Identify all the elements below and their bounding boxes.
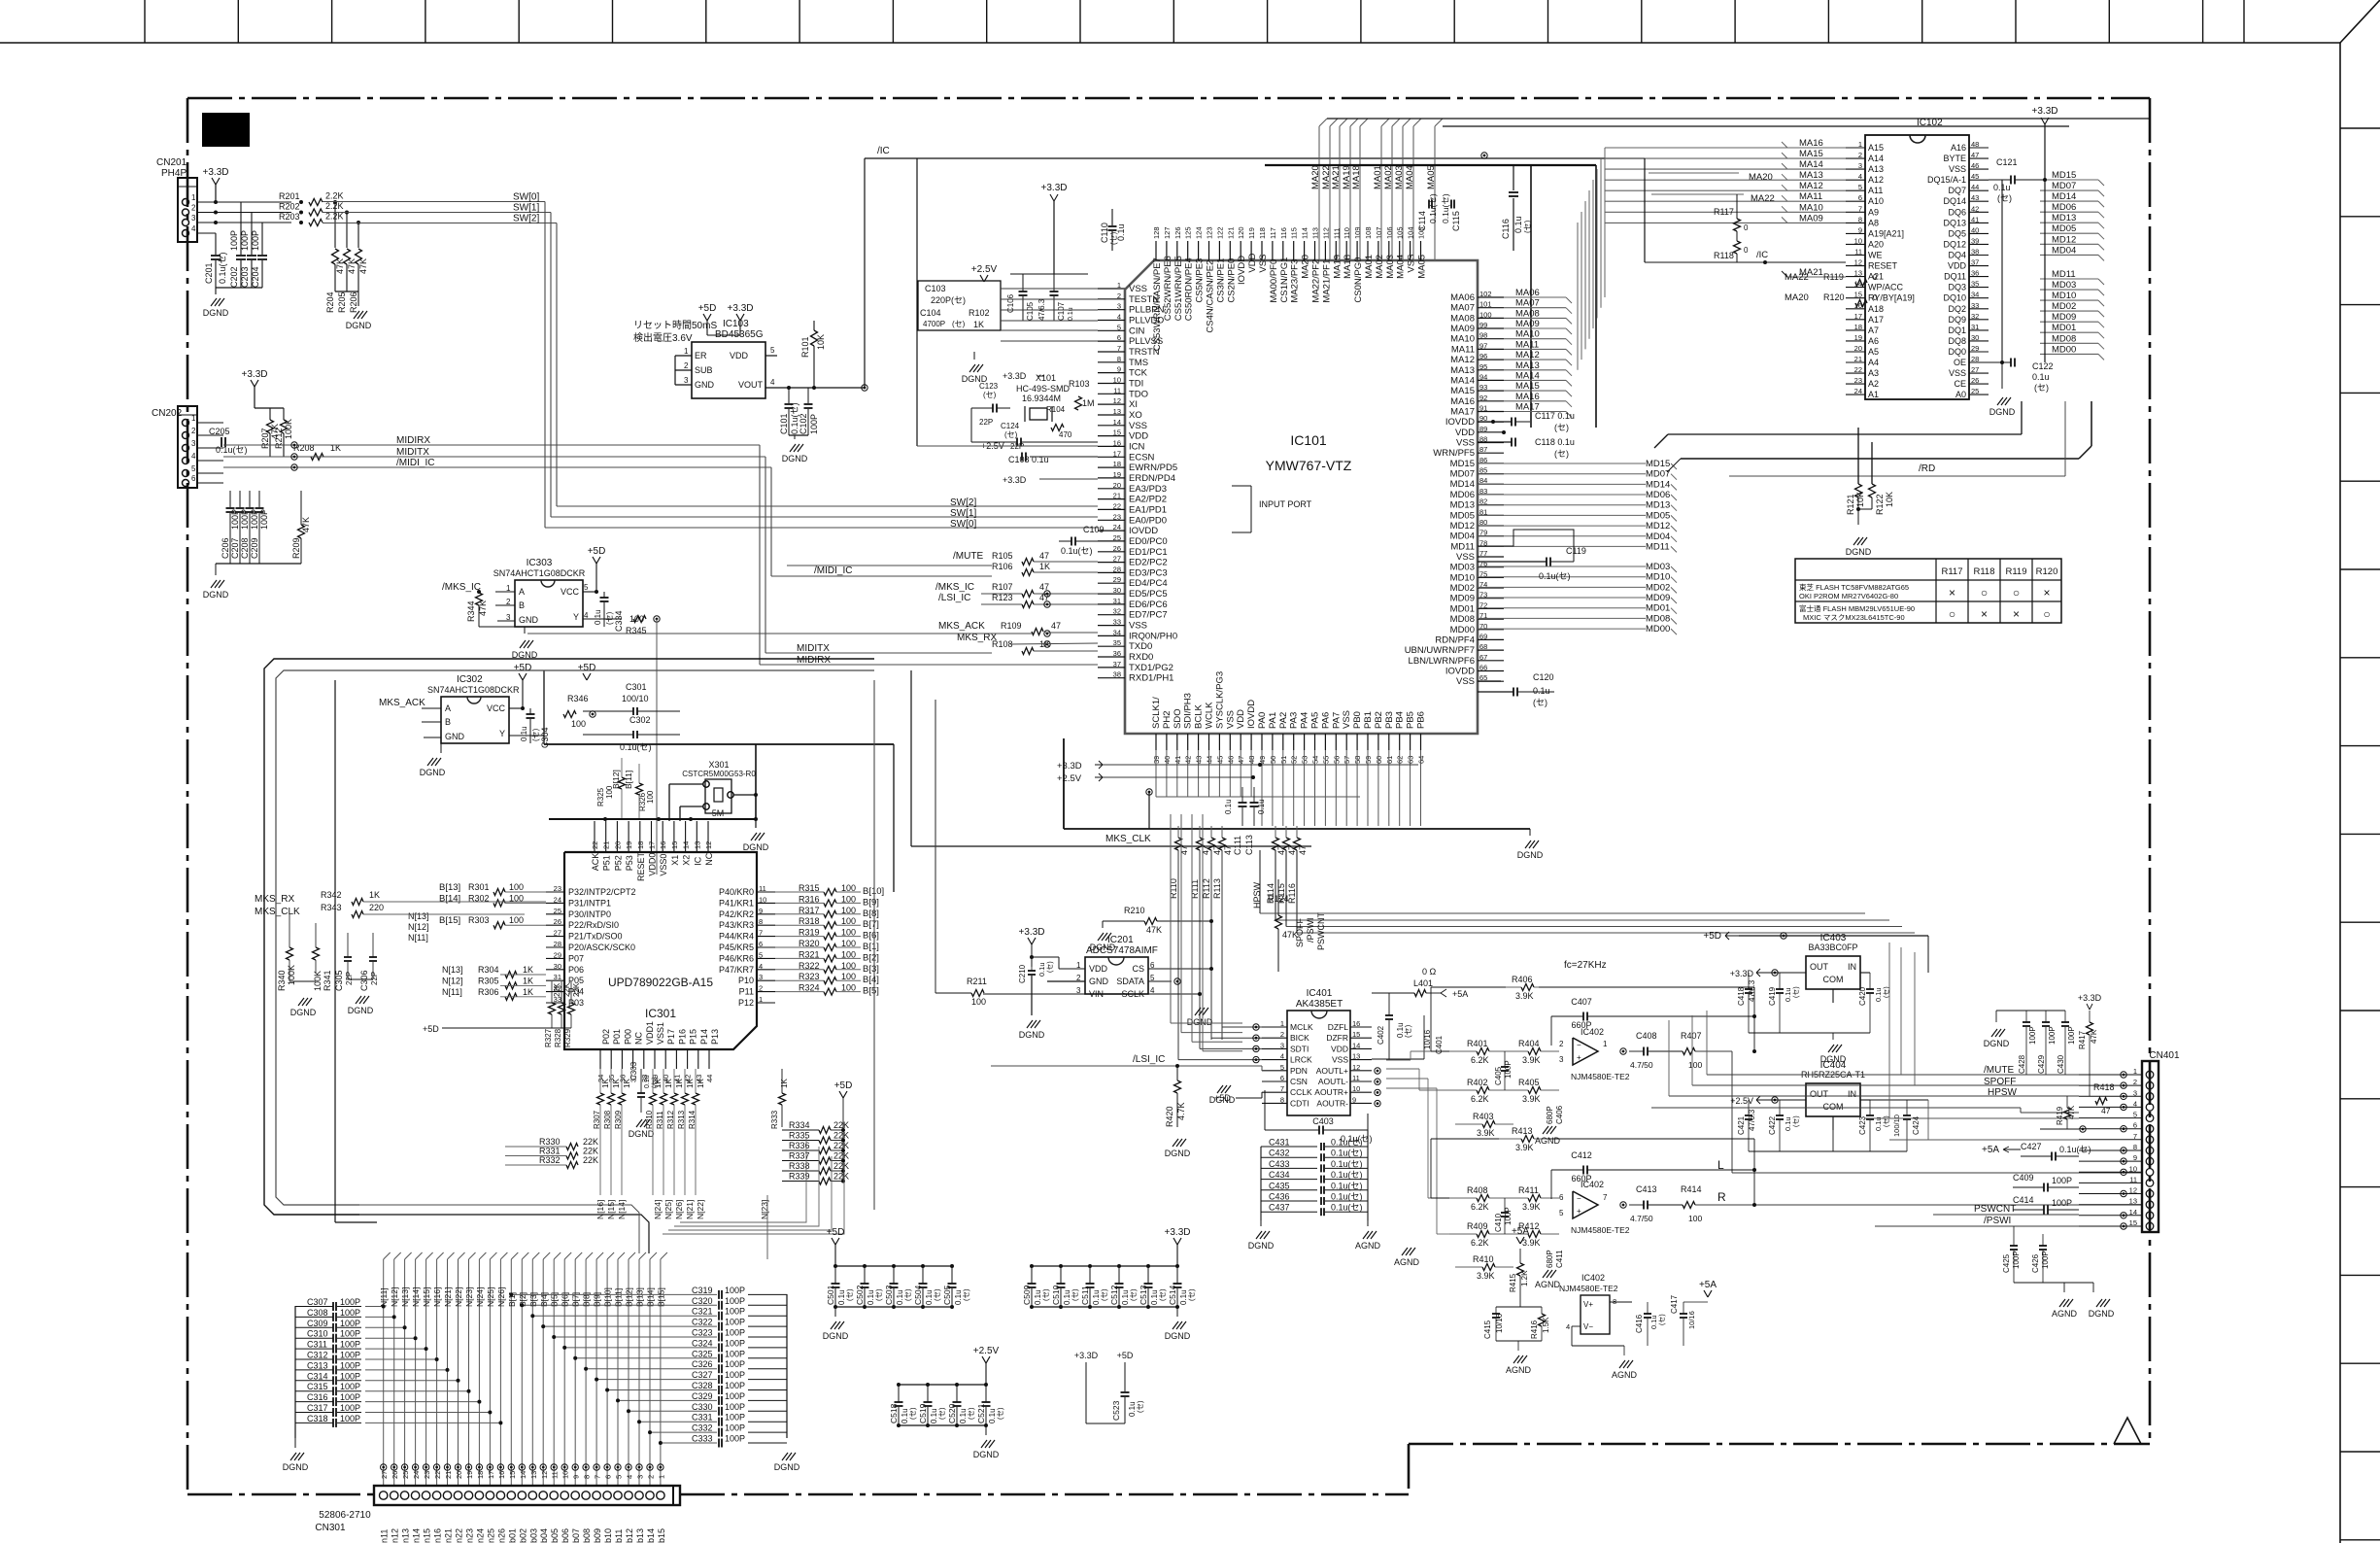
- svg-text:P30/INTP0: P30/INTP0: [568, 909, 611, 919]
- svg-text:A14: A14: [1868, 154, 1884, 163]
- svg-text:100P: 100P: [340, 1329, 360, 1339]
- svg-text:MA12: MA12: [1515, 350, 1540, 360]
- svg-text:C334: C334: [614, 610, 624, 632]
- svg-text:+5A: +5A: [1982, 1145, 1999, 1155]
- svg-text:C521: C521: [976, 1403, 986, 1423]
- svg-text:MD04: MD04: [2052, 245, 2076, 256]
- svg-text:A9: A9: [1868, 207, 1879, 217]
- svg-text:(セ): (セ): [845, 1288, 854, 1301]
- svg-text:CS51WRN/PE5: CS51WRN/PE5: [1173, 256, 1184, 321]
- svg-text:1: 1: [1280, 1019, 1284, 1028]
- svg-text:35: 35: [1113, 638, 1121, 647]
- svg-text:C105: C105: [1026, 301, 1035, 321]
- svg-text:100P: 100P: [725, 1402, 745, 1412]
- svg-text:26: 26: [391, 1471, 399, 1479]
- svg-text:C117 0.1u: C117 0.1u: [1535, 411, 1575, 421]
- svg-text:RESET: RESET: [636, 851, 646, 881]
- svg-text:XO: XO: [1129, 410, 1142, 421]
- svg-text:21: 21: [444, 1471, 453, 1479]
- svg-text:SDO: SDO: [1173, 708, 1183, 729]
- svg-text:6: 6: [604, 1475, 613, 1479]
- svg-text:RXD0: RXD0: [1129, 652, 1153, 663]
- svg-text:N[12]: N[12]: [390, 1287, 399, 1307]
- svg-text:MKS_CLK: MKS_CLK: [255, 907, 300, 917]
- svg-text:CS53WRN/RASN/PE7: CS53WRN/RASN/PE7: [1152, 257, 1163, 351]
- svg-text:N[26]: N[26]: [674, 1200, 684, 1219]
- svg-text:MD10: MD10: [1646, 572, 1670, 583]
- svg-text:B[8]: B[8]: [863, 909, 879, 919]
- svg-text:22: 22: [1113, 501, 1121, 510]
- svg-text:100P: 100P: [340, 1382, 360, 1391]
- svg-text:C319: C319: [692, 1286, 713, 1295]
- svg-text:22K: 22K: [833, 1120, 849, 1130]
- svg-text:/MUTE: /MUTE: [1984, 1065, 2014, 1076]
- svg-text:B[5]: B[5]: [863, 986, 879, 997]
- svg-text:C422: C422: [1768, 1115, 1777, 1135]
- svg-text:DQ2: DQ2: [1948, 304, 1966, 314]
- svg-text:UPD789022GB-A15: UPD789022GB-A15: [608, 976, 713, 989]
- svg-text:/LSI_IC: /LSI_IC: [1133, 1054, 1165, 1065]
- svg-text:B[14]: B[14]: [646, 1287, 656, 1307]
- svg-text:C318: C318: [307, 1414, 328, 1423]
- svg-text:C123: C123: [979, 382, 999, 391]
- svg-text:C409: C409: [2013, 1173, 2034, 1183]
- svg-text:8: 8: [1858, 215, 1862, 223]
- svg-text:DGND: DGND: [823, 1331, 849, 1341]
- svg-text:1K: 1K: [664, 1079, 673, 1088]
- svg-text:VDD0: VDD0: [648, 853, 658, 876]
- svg-text:ERDN/PD4: ERDN/PD4: [1129, 473, 1175, 484]
- svg-text:SCLK: SCLK: [1121, 989, 1144, 999]
- svg-text:100K: 100K: [313, 971, 323, 991]
- svg-text:1K: 1K: [697, 1079, 705, 1088]
- svg-text:87: 87: [1479, 445, 1487, 454]
- svg-text:V+: V+: [1583, 1300, 1593, 1309]
- svg-text:A13: A13: [1868, 164, 1884, 174]
- svg-text:MA02: MA02: [1375, 255, 1385, 279]
- svg-text:10/16: 10/16: [1687, 1311, 1696, 1329]
- svg-text:MIDIRX: MIDIRX: [797, 655, 831, 666]
- svg-text:P41/KR1: P41/KR1: [719, 898, 754, 908]
- svg-text:42: 42: [1971, 204, 1979, 213]
- svg-text:100P: 100P: [725, 1370, 745, 1380]
- svg-text:3.9K: 3.9K: [1522, 1202, 1541, 1212]
- svg-text:C413: C413: [1636, 1184, 1657, 1194]
- svg-text:R121: R121: [1846, 494, 1855, 515]
- svg-text:MD08: MD08: [2052, 333, 2076, 344]
- svg-text:220P(セ): 220P(セ): [931, 295, 966, 305]
- svg-text:BYTE: BYTE: [1943, 154, 1966, 163]
- svg-text:C116: C116: [1501, 219, 1511, 239]
- svg-text:R305: R305: [478, 976, 499, 985]
- svg-text:R207: R207: [260, 428, 270, 449]
- svg-text:R342: R342: [321, 890, 342, 900]
- svg-text:100: 100: [1688, 1060, 1702, 1070]
- svg-text:4: 4: [759, 962, 763, 971]
- svg-text:C403: C403: [1312, 1116, 1334, 1126]
- svg-text:127: 127: [1163, 226, 1172, 239]
- svg-text:CS5N/PE3: CS5N/PE3: [1195, 258, 1206, 303]
- svg-text:AGND: AGND: [1535, 1136, 1561, 1146]
- svg-text:PB4: PB4: [1395, 711, 1406, 729]
- svg-text:AGND: AGND: [1612, 1370, 1638, 1380]
- svg-text:0: 0: [1873, 273, 1878, 282]
- svg-text:P01: P01: [612, 1029, 622, 1045]
- svg-text:ED0/PC0: ED0/PC0: [1129, 536, 1168, 547]
- svg-text:N[11]: N[11]: [379, 1287, 389, 1307]
- svg-text:4: 4: [1566, 1322, 1570, 1331]
- svg-text:6: 6: [191, 474, 196, 483]
- svg-text:C317: C317: [307, 1403, 328, 1413]
- svg-text:1K: 1K: [601, 1079, 610, 1088]
- svg-text:B[14]: B[14]: [439, 893, 460, 904]
- svg-text:0.1u(セ): 0.1u(セ): [1331, 1203, 1363, 1213]
- svg-text:PA4: PA4: [1300, 712, 1310, 729]
- svg-text:C114: C114: [1417, 211, 1427, 231]
- svg-text:100P: 100P: [725, 1296, 745, 1306]
- svg-text:リセット時間50mS: リセット時間50mS: [633, 320, 717, 331]
- svg-text:47K: 47K: [347, 258, 357, 274]
- svg-text:22K: 22K: [833, 1151, 849, 1161]
- svg-text:C301: C301: [626, 682, 647, 692]
- svg-text:MA22/PF2: MA22/PF2: [1311, 259, 1322, 303]
- svg-text:VDD: VDD: [730, 351, 749, 360]
- svg-text:R310: R310: [645, 1110, 654, 1129]
- svg-text:C414: C414: [2013, 1195, 2034, 1205]
- svg-text:C120: C120: [1533, 672, 1554, 682]
- svg-text:N[23]: N[23]: [464, 1287, 474, 1307]
- svg-text:3: 3: [2133, 1088, 2137, 1097]
- svg-text:5: 5: [584, 583, 589, 592]
- svg-text:+5D: +5D: [578, 663, 596, 673]
- svg-text:n16: n16: [433, 1528, 443, 1543]
- svg-text:0.1u: 0.1u: [1533, 686, 1550, 696]
- svg-text:1K: 1K: [369, 890, 380, 900]
- svg-text:A11: A11: [1868, 186, 1883, 195]
- svg-text:R119: R119: [2005, 566, 2026, 577]
- svg-text:0.1u: 0.1u: [1874, 1116, 1883, 1131]
- svg-text:+5D: +5D: [834, 1080, 853, 1091]
- svg-text:ECSN: ECSN: [1129, 452, 1155, 463]
- svg-text:N[22]: N[22]: [454, 1287, 463, 1307]
- svg-text:ED6/PC6: ED6/PC6: [1129, 600, 1168, 610]
- svg-text:×: ×: [2013, 607, 2020, 621]
- svg-text:TMS: TMS: [1129, 358, 1148, 368]
- svg-text:MD09: MD09: [2052, 312, 2076, 323]
- svg-text:×: ×: [1981, 607, 1988, 621]
- svg-text:DZFL: DZFL: [1328, 1022, 1349, 1032]
- svg-text:22P: 22P: [345, 972, 354, 985]
- svg-text:25: 25: [554, 907, 561, 915]
- svg-text:0.1u(セ): 0.1u(セ): [1331, 1149, 1363, 1158]
- svg-text:MD07: MD07: [2052, 181, 2076, 191]
- svg-text:(セ): (セ): [1792, 1115, 1800, 1127]
- svg-text:PB6: PB6: [1416, 711, 1427, 729]
- svg-text:MA20: MA20: [1785, 292, 1809, 303]
- svg-text:(セ): (セ): [908, 1407, 917, 1420]
- svg-text:AK4385ET: AK4385ET: [1296, 999, 1343, 1010]
- svg-text:8: 8: [583, 1475, 592, 1479]
- svg-text:VDD: VDD: [1247, 253, 1258, 272]
- svg-text:MD14: MD14: [2052, 191, 2076, 202]
- svg-text:C203: C203: [240, 266, 250, 288]
- svg-text:b13: b13: [635, 1528, 645, 1543]
- svg-text:20: 20: [455, 1471, 463, 1479]
- svg-text:(セ): (セ): [1554, 423, 1569, 432]
- svg-text:b10: b10: [603, 1528, 613, 1543]
- svg-text:2.2K: 2.2K: [325, 191, 344, 201]
- svg-text:22: 22: [1854, 365, 1862, 374]
- svg-text:DGND: DGND: [782, 454, 808, 463]
- svg-text:C430: C430: [2057, 1054, 2065, 1074]
- svg-text:4: 4: [626, 1475, 634, 1479]
- svg-text:28: 28: [554, 940, 561, 948]
- svg-text:NJM4580E-TE2: NJM4580E-TE2: [1559, 1284, 1618, 1293]
- svg-text:/MKS_IC: /MKS_IC: [935, 582, 974, 593]
- svg-text:3: 3: [759, 973, 763, 981]
- svg-text:VSS: VSS: [1342, 710, 1352, 729]
- svg-text:DGND: DGND: [1989, 407, 2016, 417]
- svg-text:MA13: MA13: [1515, 360, 1540, 371]
- svg-text:21: 21: [1854, 355, 1862, 363]
- svg-text:C326: C326: [692, 1359, 713, 1369]
- svg-text:16: 16: [1352, 1019, 1360, 1028]
- svg-text:6: 6: [1858, 193, 1862, 202]
- svg-text:CS52WRN/PE6: CS52WRN/PE6: [1163, 256, 1173, 321]
- svg-text:C315: C315: [307, 1382, 328, 1391]
- svg-text:R341: R341: [323, 970, 332, 991]
- svg-text:MA11: MA11: [1515, 339, 1539, 350]
- svg-text:4.7/50: 4.7/50: [1630, 1214, 1653, 1223]
- svg-text:(セ): (セ): [1658, 1314, 1666, 1325]
- svg-text:N[24]: N[24]: [653, 1200, 663, 1219]
- svg-text:WP/ACC: WP/ACC: [1868, 283, 1904, 292]
- svg-text:ED5/PC5: ED5/PC5: [1129, 589, 1168, 600]
- svg-text:C113: C113: [1244, 835, 1254, 855]
- svg-text:VSS: VSS: [1225, 710, 1236, 729]
- svg-text:10: 10: [1854, 236, 1862, 245]
- svg-text:C206: C206: [221, 537, 230, 559]
- svg-text:P43/KR3: P43/KR3: [719, 920, 754, 930]
- svg-text:P17: P17: [666, 1029, 676, 1045]
- svg-text:MA05: MA05: [1417, 255, 1428, 279]
- svg-text:3: 3: [191, 439, 196, 448]
- svg-text:VSS: VSS: [1129, 621, 1147, 632]
- svg-text:17: 17: [1854, 312, 1862, 321]
- svg-text:35: 35: [1971, 280, 1979, 289]
- svg-text:1M: 1M: [1082, 398, 1095, 408]
- svg-text:113: 113: [1311, 227, 1320, 239]
- svg-text:(セ): (セ): [983, 391, 997, 399]
- svg-text:+3.3D: +3.3D: [1074, 1351, 1099, 1360]
- svg-text:R101: R101: [800, 336, 810, 358]
- svg-text:37: 37: [1113, 660, 1121, 669]
- svg-text:3.9K: 3.9K: [1515, 991, 1534, 1001]
- svg-text:A0: A0: [1955, 390, 1966, 399]
- svg-text:SW[0]: SW[0]: [950, 519, 976, 530]
- svg-text:C119: C119: [1566, 546, 1586, 556]
- svg-text:○: ○: [1949, 607, 1955, 621]
- svg-text:27: 27: [380, 1471, 389, 1479]
- svg-text:N[16]: N[16]: [432, 1287, 442, 1307]
- svg-text:14: 14: [519, 1471, 527, 1479]
- svg-text:4: 4: [770, 378, 775, 387]
- svg-text:C402: C402: [1377, 1025, 1385, 1045]
- svg-text:n11: n11: [380, 1529, 390, 1543]
- svg-text:NJM4580E-TE2: NJM4580E-TE2: [1571, 1072, 1630, 1081]
- svg-text:47K: 47K: [2067, 1105, 2076, 1119]
- svg-text:VSS: VSS: [1129, 284, 1147, 294]
- svg-text:48: 48: [1971, 140, 1979, 149]
- svg-text:100P: 100P: [340, 1414, 360, 1423]
- svg-text:EA1/PD1: EA1/PD1: [1129, 504, 1167, 515]
- svg-text:100P: 100P: [2028, 1026, 2037, 1045]
- svg-text:TDO: TDO: [1129, 389, 1148, 399]
- svg-text:19: 19: [465, 1471, 474, 1479]
- svg-text:A17: A17: [1868, 315, 1884, 325]
- svg-text:B[9]: B[9]: [863, 897, 879, 908]
- svg-text:+5A: +5A: [1699, 1280, 1717, 1290]
- svg-text:MD15: MD15: [2052, 170, 2076, 181]
- svg-text:0.1u(セ): 0.1u(セ): [1539, 571, 1571, 581]
- svg-text:34: 34: [1971, 291, 1979, 299]
- svg-text:118: 118: [1258, 227, 1267, 239]
- svg-text:R405: R405: [1518, 1078, 1540, 1087]
- svg-text:MD01: MD01: [2052, 323, 2076, 333]
- svg-text:N[21]: N[21]: [685, 1200, 695, 1219]
- svg-text:Y: Y: [573, 612, 579, 622]
- svg-text:MD04: MD04: [1646, 531, 1670, 542]
- svg-text:/MIDI_IC: /MIDI_IC: [396, 458, 434, 468]
- svg-text:DGND: DGND: [774, 1462, 800, 1472]
- svg-text:22: 22: [433, 1471, 442, 1479]
- svg-text:IC401: IC401: [1307, 988, 1333, 999]
- svg-text:13: 13: [693, 841, 701, 849]
- svg-text:PA3: PA3: [1289, 712, 1300, 729]
- svg-text:MA16: MA16: [1799, 138, 1823, 149]
- svg-text:LRCK: LRCK: [1290, 1055, 1312, 1065]
- svg-text:6.2K: 6.2K: [1471, 1202, 1489, 1212]
- svg-text:52806-2710: 52806-2710: [319, 1510, 371, 1521]
- svg-text:27: 27: [1971, 365, 1979, 374]
- svg-text:100: 100: [605, 785, 614, 799]
- svg-text:0.1u: 0.1u: [520, 726, 528, 741]
- svg-text:21: 21: [602, 841, 611, 849]
- svg-text:MA16: MA16: [1515, 392, 1540, 402]
- svg-text:C502: C502: [855, 1285, 865, 1305]
- svg-text:18: 18: [1113, 460, 1121, 468]
- svg-text:CS3N/PE1: CS3N/PE1: [1215, 258, 1226, 303]
- svg-text:IC302: IC302: [457, 674, 483, 685]
- svg-text:2: 2: [191, 427, 196, 435]
- svg-text:(セ): (セ): [1187, 1288, 1196, 1301]
- svg-text:R404: R404: [1518, 1039, 1540, 1048]
- svg-text:MD13: MD13: [2052, 213, 2076, 223]
- svg-text:100P: 100P: [340, 1392, 360, 1402]
- svg-text:3.9K: 3.9K: [1515, 1143, 1534, 1152]
- svg-text:N[25]: N[25]: [663, 1200, 673, 1219]
- svg-text:10: 10: [2129, 1164, 2137, 1173]
- svg-text:RESET: RESET: [1868, 261, 1898, 271]
- svg-text:28: 28: [1971, 355, 1979, 363]
- svg-text:MD05: MD05: [2052, 223, 2076, 234]
- svg-text:DGND: DGND: [1187, 1017, 1213, 1027]
- svg-text:N[21]: N[21]: [443, 1287, 453, 1307]
- svg-text:WCLK: WCLK: [1205, 702, 1215, 729]
- svg-text:b03: b03: [528, 1528, 538, 1543]
- svg-text:24: 24: [554, 895, 561, 904]
- svg-text:SUB: SUB: [695, 365, 713, 375]
- svg-text:22K: 22K: [583, 1155, 598, 1165]
- svg-text:BA33BC0FP: BA33BC0FP: [1808, 943, 1857, 952]
- svg-text:C415: C415: [1483, 1320, 1492, 1339]
- svg-text:33: 33: [1113, 618, 1121, 627]
- svg-text:MA15: MA15: [1450, 386, 1475, 396]
- svg-text:23: 23: [1113, 512, 1121, 521]
- svg-text:0.1u(セ): 0.1u(セ): [1061, 546, 1093, 556]
- svg-text:MA09: MA09: [1799, 213, 1823, 223]
- svg-text:6.2K: 6.2K: [1471, 1055, 1489, 1065]
- svg-text:6.2K: 6.2K: [1471, 1094, 1489, 1104]
- svg-text:X301: X301: [708, 760, 729, 770]
- svg-text:47K: 47K: [301, 517, 311, 532]
- svg-text:100P: 100P: [340, 1371, 360, 1381]
- svg-text:C118 0.1u: C118 0.1u: [1535, 437, 1575, 447]
- svg-text:12: 12: [1854, 258, 1862, 267]
- svg-text:VDD: VDD: [1331, 1044, 1348, 1053]
- svg-text:(セ): (セ): [933, 1288, 941, 1301]
- svg-text:MA13: MA13: [1799, 170, 1823, 181]
- svg-text:PA7: PA7: [1331, 712, 1342, 729]
- svg-text:C511: C511: [1080, 1286, 1090, 1305]
- svg-text:TCK: TCK: [1129, 368, 1148, 379]
- svg-text:WE: WE: [1868, 251, 1883, 260]
- svg-text:A3: A3: [1868, 368, 1879, 378]
- svg-text:1: 1: [2133, 1067, 2137, 1076]
- svg-text:34: 34: [1113, 628, 1121, 636]
- svg-text:b15: b15: [657, 1528, 666, 1543]
- svg-text:MA18: MA18: [1343, 255, 1353, 279]
- svg-text:AOUTR-: AOUTR-: [1316, 1098, 1348, 1108]
- svg-text:RXD1/PH1: RXD1/PH1: [1129, 673, 1173, 684]
- svg-text:DQ11: DQ11: [1944, 272, 1966, 282]
- svg-text:/PSWI: /PSWI: [1984, 1216, 2011, 1226]
- svg-text:100P: 100P: [725, 1338, 745, 1348]
- svg-text:R119: R119: [1823, 272, 1844, 282]
- svg-text:/IC: /IC: [1756, 250, 1768, 260]
- svg-text:7: 7: [1280, 1084, 1284, 1093]
- svg-text:R415: R415: [1509, 1273, 1517, 1292]
- svg-text:/IC: /IC: [877, 146, 890, 156]
- svg-text:MA20: MA20: [1310, 165, 1321, 189]
- svg-text:C425: C425: [2002, 1253, 2011, 1273]
- svg-text:99: 99: [1479, 321, 1487, 329]
- svg-text:DGND: DGND: [1984, 1039, 2010, 1048]
- svg-text:12: 12: [1352, 1063, 1360, 1072]
- svg-text:P21/TxD/SO0: P21/TxD/SO0: [568, 932, 623, 942]
- svg-text:b06: b06: [561, 1528, 570, 1543]
- svg-text:102: 102: [1479, 290, 1492, 298]
- svg-text:SCLK1/: SCLK1/: [1151, 697, 1162, 729]
- svg-text:b09: b09: [593, 1528, 602, 1543]
- svg-text:DQ13: DQ13: [1943, 218, 1966, 227]
- svg-text:(セ): (セ): [1533, 698, 1547, 707]
- svg-text:37: 37: [1971, 258, 1979, 267]
- svg-text:89: 89: [1479, 425, 1487, 433]
- svg-text:SW[0]: SW[0]: [513, 192, 539, 203]
- svg-text:B: B: [445, 717, 451, 727]
- svg-text:MD01: MD01: [1450, 603, 1475, 614]
